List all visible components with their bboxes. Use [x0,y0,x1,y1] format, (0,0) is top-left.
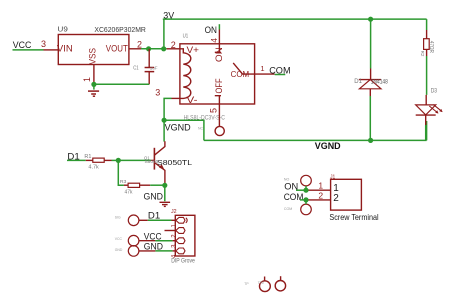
test point TP1 [260,277,271,292]
wire D1 anode to VGND rail [369,96,371,140]
transistor Q1 S8050TL [151,141,165,183]
pin 3 stub of J2 [173,240,176,242]
junction D1 cathode / 3V rail [368,17,373,22]
regulator U9 body [58,35,129,65]
svg-text:VGND: VGND [165,122,191,133]
wire ON net stub [218,24,220,29]
junction ON pad [303,188,308,193]
pin 3 pad of J2 [176,238,185,244]
svg-text:COM: COM [269,66,290,77]
svg-text:ON: ON [205,25,217,36]
wire VCC net [13,49,44,51]
svg-text:TP: TP [244,282,249,286]
connector J1 body [331,179,362,210]
diode D1 1N4148 [359,69,381,97]
svg-text:3: 3 [41,39,46,49]
wire D1 net to R1 [67,159,86,161]
wire node A to Q1 base [118,159,151,161]
pin 2 of J1 [306,190,331,200]
pin 2 pad of J2 [176,228,185,234]
svg-text:VOUT: VOUT [106,44,128,55]
svg-text:NC: NC [198,127,204,131]
LED D3 [416,95,443,125]
svg-text:1uF: 1uF [150,65,158,70]
wire COM pad stub [305,200,307,204]
wire 3V rail [163,19,427,49]
test point TP2 [275,276,285,291]
pad lead D1 [139,219,148,221]
junction VOUT/C1 [146,46,151,51]
svg-text:3: 3 [155,87,160,97]
svg-text:V-: V- [187,95,198,105]
pin 3 VIN of U9 [41,39,58,50]
svg-text:2: 2 [171,40,176,50]
pad circle GND [128,246,139,257]
junction VGND node [162,118,167,123]
capacitor C1 [145,49,155,85]
svg-text:2: 2 [333,193,339,204]
svg-text:ON: ON [214,47,224,62]
pin 2 VOUT of U9 [129,39,142,49]
pad lead GND [139,250,156,252]
junction Q1 emitter / GND [162,183,167,188]
wire V- to VGND node [164,98,171,120]
wire COM net [275,74,286,76]
wire ON pad stub [305,186,307,190]
svg-text:GND: GND [144,242,163,253]
svg-text:VGND: VGND [315,141,341,152]
resistor R3 [124,183,150,187]
pad circle ON [301,175,312,186]
resistor R1 [86,158,112,162]
junction D1 anode / VGND rail [368,138,373,143]
junction node A [116,158,121,163]
svg-text:V+: V+ [187,45,200,55]
wire ON net to J1 [296,189,306,191]
pin 4 ON of relay [209,30,221,53]
svg-text:TP2: TP2 [258,281,264,285]
svg-text:VIN: VIN [57,44,73,55]
ground symbol under Q1 [160,202,171,206]
svg-text:Screw Terminal: Screw Terminal [329,213,378,222]
pad lead VCC [139,240,156,242]
svg-text:R3: R3 [120,179,127,184]
svg-text:COM: COM [284,207,292,211]
svg-text:1: 1 [260,64,264,73]
svg-text:U1: U1 [183,33,189,39]
wire VGND rail [164,120,427,140]
pin 2 V+ of relay U1 [167,40,180,50]
svg-text:4: 4 [172,254,178,258]
pin 1 stub of J2 [172,219,177,221]
relay switch arm [233,63,254,74]
pin 1 pad of J2 [176,217,187,223]
wire node A to R3 [118,160,124,185]
svg-text:OFF: OFF [214,78,224,94]
pad circle COM [301,204,312,215]
svg-text:5: 5 [209,108,219,113]
relay U1 body [180,44,255,104]
svg-text:GND: GND [144,191,164,202]
svg-text:2: 2 [318,190,323,200]
pin 2 stub of J2 [165,230,176,232]
svg-text:J1: J1 [330,175,335,181]
svg-text:DIP Grove: DIP Grove [171,259,195,265]
pin 5 open contact circle [215,126,224,135]
svg-text:C1: C1 [133,65,139,71]
wire D3 cathode to VGND rail [425,125,427,140]
pin 4 pad of J2 [176,248,185,254]
svg-text:1: 1 [318,181,323,191]
svg-text:1: 1 [82,77,92,82]
connector J2 body [175,215,195,256]
svg-text:4: 4 [209,38,219,43]
svg-text:4.7k: 4.7k [88,165,99,171]
pad circle D1 [128,215,139,226]
resistor R2 [424,30,430,56]
svg-text:R1: R1 [84,154,91,160]
svg-text:47k: 47k [125,190,133,196]
pin 5 OFF of relay [209,96,221,127]
svg-text:47ΩR: 47ΩR [428,41,434,54]
svg-text:D1: D1 [354,79,362,85]
pin 1 COM of relay [255,64,275,74]
wire R3 to GND node [150,184,165,186]
wire VCC net to J2 pin 3 [155,240,172,242]
junction VOUT/3V drop [161,46,166,51]
junction VSS/GND [91,82,96,87]
wire COM net to J1 [300,199,306,201]
svg-text:R2: R2 [420,51,425,57]
pin 1 VSS of U9 [82,65,94,85]
wire 3V to D1 cathode [370,19,372,68]
svg-text:U9: U9 [58,27,68,34]
ground symbol under U9 [88,87,99,96]
svg-text:NO: NO [284,178,290,182]
svg-text:2: 2 [137,39,142,49]
svg-text:COM: COM [231,69,250,79]
pad circle VCC [128,235,139,246]
pin 3 V- of relay [155,87,180,98]
svg-text:GND: GND [115,248,123,252]
wire VOUT/3V net [141,48,167,50]
wire GND node to ground [164,185,166,201]
relay coil U1 [180,49,191,99]
wire VGND to Q1 collector [163,120,165,141]
svg-text:J2: J2 [171,209,177,215]
svg-text:3: 3 [172,244,178,248]
svg-text:2: 2 [172,234,178,238]
svg-text:VCC: VCC [115,237,123,241]
svg-text:SIG: SIG [115,216,121,220]
wire R2 to LED D3 [426,56,428,95]
wire R1 to node A [112,159,119,161]
pin 4 stub of J2 [173,250,176,252]
junction COM pad [303,197,308,202]
pin 1 of J1 [306,181,331,191]
svg-text:1N4148: 1N4148 [371,79,388,86]
svg-text:VSS: VSS [87,48,98,65]
svg-text:1: 1 [172,224,178,228]
svg-text:D3: D3 [431,89,438,95]
wire GND net to J2 pin 4 [155,250,172,252]
wire C1 to GND node [94,83,149,85]
svg-text:XC6206P302MR: XC6206P302MR [94,25,146,34]
svg-text:D1: D1 [148,211,160,222]
wire D1 net to J2 pin 1 [148,219,172,221]
svg-text:COM: COM [284,192,304,203]
svg-text:S8050TL: S8050TL [157,158,192,167]
